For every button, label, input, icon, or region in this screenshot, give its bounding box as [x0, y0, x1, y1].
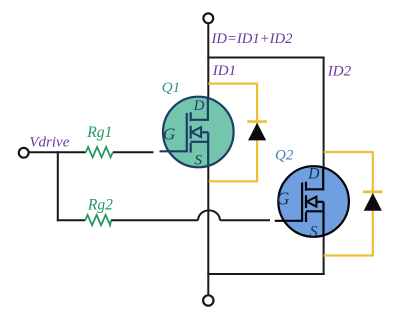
svg-text:ID=ID1+ID2: ID=ID1+ID2: [211, 31, 294, 47]
Q1 gate lead: [160, 150, 187, 152]
svg-text:Rg2: Rg2: [87, 197, 113, 214]
wire: Rg1 to Q1 gate: [113, 151, 154, 153]
Q2 source arrow: [307, 197, 317, 207]
svg-text:Q2: Q2: [275, 148, 294, 164]
Q1 body circle: [163, 97, 234, 168]
wire: top terminal down to Q1 drain: [207, 23, 209, 99]
svg-text:ID2: ID2: [327, 64, 352, 80]
Q1 source vertical: [207, 132, 209, 166]
svg-text:S: S: [310, 223, 318, 240]
wire: branch down from Vdrive node: [57, 151, 59, 221]
Q2 drain lead: [306, 167, 323, 190]
svg-text:G: G: [277, 189, 290, 209]
Vdrive terminal: [19, 148, 29, 158]
wire: Vdrive terminal to Rg1: [29, 151, 86, 153]
Q2 channel (dashed): [305, 182, 307, 222]
MOSFET Q1: [160, 97, 234, 168]
Q1 gate bar: [186, 113, 188, 152]
wire: hop to Q2 gate: [220, 219, 270, 221]
diode D2 cathode bar: [363, 191, 383, 194]
wire: Rg2 to hop: [111, 219, 198, 221]
svg-text:Vdrive: Vdrive: [29, 135, 69, 151]
Q1 source bottom lead: [191, 141, 209, 143]
wire: Q1 source down to bottom node: [207, 165, 209, 296]
resistor Rg1: [86, 147, 113, 157]
body-diode loop of Q2 (orange wire): [324, 152, 373, 256]
svg-text:D: D: [193, 98, 205, 114]
Q2 source mid lead: [316, 201, 323, 203]
body-diode loop of Q1 (orange wire): [208, 84, 257, 182]
Q1 channel (dashed): [190, 112, 192, 152]
top terminal: [203, 13, 213, 23]
wire: bottom node horizontal: [207, 273, 324, 275]
Q2 body circle: [278, 166, 349, 237]
wire: top node horizontal: [207, 57, 324, 59]
resistor Rg2: [85, 215, 111, 225]
diode D2 triangle: [364, 193, 382, 211]
Q2 gate bar: [301, 183, 303, 222]
Q2 source vertical: [322, 202, 324, 236]
Q2 gate lead: [275, 220, 302, 222]
MOSFET Q2: [275, 166, 349, 237]
Q1 source mid lead: [201, 131, 208, 133]
Q1 drain lead: [191, 97, 208, 120]
wire: branch to Rg2: [57, 219, 86, 221]
diode D1 cathode bar: [247, 120, 267, 123]
svg-text:S: S: [195, 152, 203, 168]
wire: Q2 source down to bottom node: [323, 234, 325, 275]
svg-text:ID1: ID1: [212, 63, 236, 79]
diode D1 triangle: [248, 123, 266, 141]
svg-text:G: G: [163, 124, 175, 143]
bottom terminal: [203, 295, 213, 305]
svg-text:Rg1: Rg1: [86, 124, 112, 141]
svg-text:D: D: [307, 165, 319, 182]
svg-text:Q1: Q1: [162, 80, 180, 96]
Q2 source bottom lead: [306, 210, 324, 212]
wire hop: Rg2 wire jumps over Q1 source line: [198, 210, 220, 220]
wire: right ID2 branch down to Q2 drain: [323, 57, 325, 169]
Q1 source arrow: [191, 127, 201, 137]
